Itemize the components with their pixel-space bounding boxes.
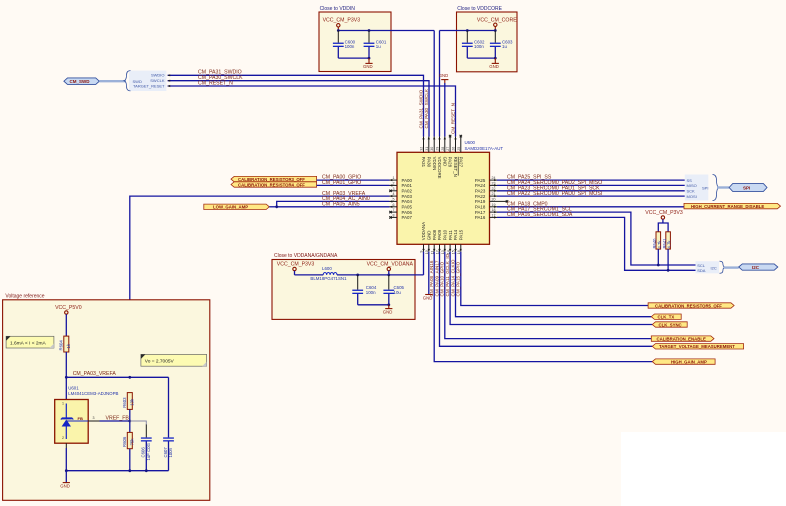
harness link SWD	[99, 80, 126, 82]
svg-text:PA02: PA02	[402, 189, 413, 194]
svg-text:VCC_CM_VDDANA: VCC_CM_VDDANA	[367, 262, 414, 268]
svg-text:PA11: PA11	[448, 230, 453, 241]
svg-text:CM_PA30_SWCLK: CM_PA30_SWCLK	[424, 88, 429, 128]
svg-text:CLK_TX: CLK_TX	[658, 315, 675, 320]
wire PA00	[317, 179, 390, 181]
svg-text:GND: GND	[442, 157, 447, 167]
harness link SPI	[717, 186, 729, 188]
svg-text:I2C: I2C	[711, 266, 717, 271]
svg-text:100n: 100n	[474, 44, 484, 49]
pin PA01 pin 2	[390, 181, 413, 188]
sheet entry flag CM_SWD	[64, 78, 99, 85]
svg-text:Close to VDDANA/GNDANA: Close to VDDANA/GNDANA	[274, 253, 338, 259]
capacitor C602 100n	[462, 31, 485, 59]
svg-text:22: 22	[492, 187, 496, 191]
svg-text:GND: GND	[363, 64, 373, 69]
svg-text:CM_PA05_AIN5: CM_PA05_AIN5	[322, 202, 360, 208]
wire PA03 column through R603 to FB node	[129, 409, 131, 432]
wire VDDANA rail left	[295, 274, 324, 276]
svg-text:PA07: PA07	[402, 215, 413, 220]
wire voltage reference ground rail	[66, 470, 168, 472]
svg-text:CM_RESET_N: CM_RESET_N	[198, 80, 233, 86]
ground GND (VDDCORE box)	[489, 58, 499, 69]
wire PA09 to TARGET_VOLTAGE_MEASUREMENT	[440, 252, 653, 347]
junction R641/SDA	[667, 269, 670, 272]
junction bottom rail at C603	[494, 57, 497, 60]
capacitor C604 100n	[352, 275, 377, 305]
pin VDDANA pin 9 (bottom)	[420, 222, 427, 253]
pin PA14 pin 15 (bottom)	[452, 229, 459, 254]
svg-text:PA19: PA19	[475, 199, 486, 204]
svg-text:8: 8	[393, 213, 395, 217]
svg-text:75k: 75k	[129, 438, 134, 446]
svg-text:CM_PA09_AIN17: CM_PA09_AIN17	[434, 260, 439, 296]
svg-text:SPI: SPI	[743, 185, 750, 190]
svg-text:BLM18PG471SN1: BLM18PG471SN1	[310, 276, 347, 281]
svg-text:PA04: PA04	[402, 199, 413, 204]
svg-text:1: 1	[62, 402, 64, 406]
svg-text:SCL: SCL	[697, 263, 706, 268]
zener diode symbol inside U601	[61, 402, 88, 440]
svg-text:18: 18	[492, 208, 496, 212]
sheet entry flag SPI	[729, 184, 767, 192]
wire VREF_FB	[100, 420, 130, 422]
svg-text:CM_PA14_CLKIO: CM_PA14_CLKIO	[450, 259, 455, 296]
svg-text:17: 17	[492, 213, 496, 217]
capacitor C601 1u	[364, 31, 387, 59]
power VCC_CM_P3V3 (VDDANA box)	[277, 262, 315, 275]
junction R640/SCL	[657, 264, 660, 267]
wire GND pin drop	[444, 83, 446, 137]
svg-text:HIGH_CURRENT_RANGE_DISABLE: HIGH_CURRENT_RANGE_DISABLE	[691, 204, 764, 209]
junction VREFA at R604 column	[65, 376, 68, 379]
capacitor C603 1u	[490, 31, 513, 59]
svg-text:VDDIN: VDDIN	[432, 157, 437, 171]
resistor R641 4.7k	[662, 232, 672, 249]
svg-text:VCC_CM_P3V3: VCC_CM_P3V3	[645, 210, 683, 216]
svg-text:GND: GND	[439, 73, 449, 78]
svg-text:3: 3	[393, 187, 395, 191]
svg-text:VDDANA: VDDANA	[421, 222, 426, 240]
junction VDDIN rail at C601	[368, 29, 371, 32]
wire VREFA horizontal	[66, 376, 168, 378]
junction at PA04/PA05 split	[275, 205, 278, 208]
svg-text:PA31: PA31	[421, 157, 426, 168]
junction VDDCORE rail at C603	[494, 29, 497, 32]
svg-text:4: 4	[393, 192, 395, 196]
pin PA22 pin 21	[475, 192, 497, 199]
wire VDDIN rail	[338, 30, 434, 32]
wire PA03 VREFA horizontal	[130, 196, 390, 377]
wire VDDANA pin drop	[423, 252, 425, 275]
wire VDDCORE box bottom rail	[467, 57, 495, 59]
svg-text:MOSI: MOSI	[687, 194, 697, 199]
power VCC_CM_P3V3 (VDDIN box)	[323, 17, 361, 30]
port CLK_SYNC	[652, 322, 687, 328]
wire VDDIN box bottom rail	[338, 57, 369, 59]
port CALIBRATION_RESISTOR3_OFF	[231, 176, 317, 182]
capacitor C607 100n	[163, 437, 174, 470]
svg-text:SDA: SDA	[697, 268, 706, 273]
note Vo = 2.7005V	[141, 354, 207, 366]
wire PA22 SPI MOSI	[497, 195, 685, 197]
wire PA11 to CLK_SYNC	[450, 252, 652, 325]
svg-text:PA24: PA24	[475, 183, 486, 188]
svg-text:CM_PA31_SWDIO: CM_PA31_SWDIO	[419, 89, 424, 128]
wire SWDIO	[168, 74, 424, 136]
note 1.6mA < I < 2mA	[6, 336, 54, 348]
wire PA25 SPI SS	[497, 179, 685, 181]
svg-text:CM_PA16_SERCOM1_SDA: CM_PA16_SERCOM1_SDA	[507, 212, 573, 218]
resistor R640 4.7k	[652, 232, 662, 249]
svg-text:28: 28	[441, 147, 445, 151]
harness link I2C	[724, 266, 739, 268]
wire VDDANA rail right	[337, 274, 424, 276]
svg-text:PA28: PA28	[448, 157, 453, 168]
svg-text:PA00: PA00	[402, 178, 413, 183]
port CALIBRATION_ENABLE	[651, 336, 714, 342]
port TARGET_VOLTAGE_MEASUREMENT	[652, 344, 743, 350]
resistor R603 13k	[122, 393, 134, 410]
harness connector SPI	[685, 175, 719, 201]
pin PA11 pin 14 (bottom)	[446, 230, 453, 255]
inductor L600 BLM18PG471SN1 ferrite bead	[310, 266, 347, 281]
junction gnd rail at C606	[145, 469, 148, 472]
svg-text:PA27: PA27	[458, 157, 463, 168]
svg-text:PA23: PA23	[475, 189, 486, 194]
svg-text:CLK_SYNC: CLK_SYNC	[659, 322, 682, 327]
svg-text:GND: GND	[427, 231, 432, 241]
pin PA19 pin 20 (nc)	[475, 197, 508, 204]
pin PA04 pin 5	[390, 197, 413, 204]
svg-text:CALIBRATION_RESISTOR4_OFF: CALIBRATION_RESISTOR4_OFF	[238, 182, 305, 187]
svg-text:PA08: PA08	[432, 229, 437, 240]
svg-text:32: 32	[420, 147, 424, 151]
region box Close to VDDANA/GNDANA	[272, 253, 415, 319]
svg-text:PA03: PA03	[402, 194, 413, 199]
resistor R604 1k	[59, 336, 71, 352]
svg-text:FB: FB	[78, 416, 83, 421]
junction FB node	[128, 420, 131, 423]
svg-text:PA05: PA05	[402, 205, 413, 210]
svg-text:31: 31	[425, 147, 429, 151]
wire U601 to ground rail	[65, 448, 67, 471]
wire TARGET_RESET / CM_RESET_N	[168, 85, 456, 137]
ground GND (top, at MCU GND pin 28)	[439, 73, 449, 83]
port HIGH_GAIN_AMP	[652, 359, 715, 365]
port CALIBRATION_RESISTOR5_OFF	[648, 303, 734, 309]
pin GND pin 10 (bottom)	[425, 231, 432, 255]
junction gnd rail at U601	[65, 469, 68, 472]
capacitor C600 100n	[333, 31, 356, 59]
svg-text:21: 21	[492, 192, 496, 196]
pin PA03 pin 4	[390, 192, 413, 199]
svg-text:VCC_CM_P3V3: VCC_CM_P3V3	[277, 262, 315, 268]
svg-text:5: 5	[393, 197, 395, 201]
svg-text:Close to VDDIN: Close to VDDIN	[320, 6, 356, 12]
svg-text:3: 3	[93, 416, 95, 420]
wire U601 cathode lead	[65, 443, 67, 448]
harness connector I2C	[696, 261, 726, 273]
power VCC_CM_CORE	[477, 17, 517, 30]
svg-text:HIGH_GAIN_AMP: HIGH_GAIN_AMP	[671, 360, 707, 365]
wire C607 top lead from VREFA	[168, 377, 170, 437]
pin PA07 pin 8 (nc)	[389, 213, 412, 220]
junction VREFA at PA03 column	[128, 376, 131, 379]
svg-text:24: 24	[492, 176, 496, 180]
ground GND (voltage reference)	[60, 471, 70, 489]
svg-text:1u: 1u	[376, 44, 381, 49]
pin VDDIN pin 30 (top)	[430, 137, 437, 171]
pin PA28 pin 27 (top, nc)	[446, 135, 453, 168]
svg-text:100n: 100n	[366, 290, 376, 295]
svg-text:GND: GND	[489, 64, 499, 69]
wire R640 to SCL	[657, 249, 659, 265]
svg-text:GND: GND	[383, 309, 393, 314]
pin PA17 pin 18	[475, 208, 497, 215]
power VCC_CM_VDDANA	[367, 262, 414, 275]
svg-text:R606: R606	[122, 436, 127, 447]
pin PA24 pin 23	[475, 181, 497, 188]
svg-text:Vo = 2.7005V: Vo = 2.7005V	[145, 358, 175, 364]
svg-text:CM_SWD: CM_SWD	[70, 79, 91, 84]
wire R604 to VREFA node	[65, 352, 67, 400]
svg-text:2: 2	[393, 181, 395, 185]
wire VDDANA box bottom rail	[358, 304, 389, 306]
region box Close to VDDCORE	[457, 6, 518, 72]
junction rail at C604	[356, 274, 359, 277]
svg-text:Voltage reference: Voltage reference	[5, 294, 44, 300]
svg-text:SPI: SPI	[702, 185, 708, 190]
wire LOW_GAIN_AMP to junction	[269, 206, 276, 208]
wire PA01	[317, 184, 390, 186]
wire PA23 SPI SCK	[497, 190, 685, 192]
svg-text:29: 29	[436, 147, 440, 151]
pin PA31 pin 32 (top)	[420, 137, 427, 168]
svg-text:CALIBRATION_RESISTOR3_OFF: CALIBRATION_RESISTOR3_OFF	[238, 177, 305, 182]
svg-text:R604: R604	[59, 340, 64, 351]
region box Close to VDDIN	[319, 6, 391, 72]
wire SWCLK	[168, 80, 429, 137]
harness connector SWD	[124, 71, 166, 91]
svg-text:GND: GND	[60, 484, 70, 489]
capacitor C606 1uF C0G	[141, 425, 152, 471]
wire PA14 to CLK_TX	[456, 252, 652, 317]
wire PA17 SCL	[497, 212, 696, 265]
svg-text:PA25: PA25	[475, 178, 486, 183]
pin PA30 pin 31 (top)	[425, 137, 432, 168]
pin PA09 pin 12 (bottom)	[436, 229, 443, 254]
port LOW_GAIN_AMP	[204, 204, 269, 210]
wire VDDCORE drop to pin 29	[439, 31, 441, 137]
svg-text:1u: 1u	[502, 44, 507, 49]
svg-text:PA09: PA09	[437, 229, 442, 240]
svg-text:LOW_GAIN_AMP: LOW_GAIN_AMP	[213, 205, 248, 210]
svg-text:TARGET_VOLTAGE_MEASUREMENT: TARGET_VOLTAGE_MEASUREMENT	[659, 344, 735, 349]
svg-text:6: 6	[393, 203, 395, 207]
wire PA16 SDA	[497, 217, 696, 270]
sheet entry flag I2C	[739, 264, 778, 270]
svg-text:30: 30	[430, 147, 434, 151]
white corner panel	[621, 432, 786, 506]
pin VDDCORE pin 29 (top)	[436, 137, 443, 179]
svg-text:1.6mA < I < 2mA: 1.6mA < I < 2mA	[10, 340, 47, 346]
pin GND pin 28 (top)	[441, 137, 448, 167]
svg-text:U601: U601	[68, 385, 79, 390]
pin PA06 pin 7 (nc)	[389, 208, 412, 215]
svg-text:RESET_N: RESET_N	[453, 157, 458, 177]
pin PA00 pin 1	[390, 176, 413, 183]
wire PA05	[277, 206, 390, 208]
resistor R606 75k	[122, 432, 134, 448]
pin PA08 pin 11 (bottom)	[430, 229, 437, 254]
pin 3 FB stub	[88, 416, 99, 421]
svg-text:VCC_CM_CORE: VCC_CM_CORE	[477, 17, 517, 23]
pin RESET_N pin 26 (top)	[452, 137, 459, 177]
pin PA16 pin 17	[475, 213, 497, 220]
svg-text:VDDCORE: VDDCORE	[437, 157, 442, 179]
pin PA10 pin 13 (bottom)	[441, 229, 448, 254]
svg-text:SS: SS	[687, 178, 693, 183]
wire PA18 CMP0	[497, 206, 684, 208]
svg-text:CM_PA01_GPIO: CM_PA01_GPIO	[322, 180, 361, 186]
svg-text:CM_PA03_VREFA: CM_PA03_VREFA	[73, 371, 117, 377]
svg-text:1uF C0G: 1uF C0G	[146, 442, 151, 460]
svg-text:20: 20	[492, 197, 496, 201]
junction rail at C605	[387, 274, 390, 277]
pin PA05 pin 6	[390, 203, 413, 210]
power VCC_CM_P3V3 (I2C pull-ups)	[645, 210, 683, 223]
svg-text:13k: 13k	[129, 398, 134, 406]
svg-text:TARGET_RESET: TARGET_RESET	[133, 83, 165, 88]
power VCC_P5V0	[55, 305, 82, 336]
wire PA24 SPI MISO	[497, 184, 685, 186]
svg-text:SAMD20E17A-AUT: SAMD20E17A-AUT	[465, 146, 504, 151]
pin PA15 pin 16 (bottom)	[457, 229, 464, 254]
pin PA18 pin 19	[475, 203, 497, 210]
junction VDDCORE rail at C602	[466, 29, 469, 32]
svg-text:L600: L600	[322, 266, 332, 271]
wire R641 to SDA	[667, 249, 669, 270]
svg-text:4.7k: 4.7k	[667, 240, 672, 249]
svg-text:CM_RESET_N: CM_RESET_N	[451, 103, 456, 134]
svg-text:PA06: PA06	[402, 210, 413, 215]
junction bottom rail at C601	[368, 57, 371, 60]
port CALIBRATION_RESISTOR4_OFF	[231, 182, 317, 188]
svg-text:PA30: PA30	[426, 157, 431, 168]
wire VDDIN drop to pin 30	[433, 31, 435, 137]
pin PA02 pin 3 (nc)	[389, 187, 412, 194]
svg-text:PA14: PA14	[453, 229, 458, 240]
junction gnd rail at R606	[128, 469, 131, 472]
svg-text:10u: 10u	[394, 290, 402, 295]
port CLK_TX	[651, 314, 681, 320]
svg-text:23: 23	[492, 181, 496, 185]
pin PA27 pin 25 (top, nc)	[457, 135, 464, 168]
svg-text:PA10: PA10	[443, 229, 448, 240]
svg-text:SCK: SCK	[687, 189, 696, 194]
svg-text:CM_PA11_GCLK_IO: CM_PA11_GCLK_IO	[445, 253, 450, 296]
svg-text:2: 2	[62, 436, 64, 440]
svg-text:Close to VDDCORE: Close to VDDCORE	[457, 6, 502, 12]
wire PA08 to HIGH_GAIN_AMP	[434, 252, 652, 362]
junction VDDIN rail at C600	[337, 29, 340, 32]
region box Voltage reference	[3, 294, 210, 501]
ground GND (VDDIN box)	[363, 58, 373, 69]
svg-text:CM_PA08_AIN16: CM_PA08_AIN16	[429, 260, 434, 296]
op-amp U600 SAMD20E17A-AUT MCU body	[397, 140, 503, 244]
svg-text:100n: 100n	[345, 44, 355, 49]
svg-text:SWDIO: SWDIO	[151, 73, 165, 78]
port HIGH_CURRENT_RANGE_DISABLE	[684, 203, 781, 209]
svg-text:U600: U600	[465, 140, 476, 145]
wire PA15 to CALIBRATION_RESISTOR5_OFF	[461, 252, 648, 306]
ground GND (VDDANA box)	[383, 305, 393, 315]
svg-text:PA17: PA17	[475, 210, 486, 215]
svg-text:VREF_FB: VREF_FB	[106, 415, 130, 421]
wire R606 to ground rail	[129, 449, 131, 471]
svg-text:I2C: I2C	[752, 265, 760, 270]
ground GND (MCU bottom)	[423, 295, 433, 301]
svg-text:19: 19	[492, 203, 496, 207]
pin PA25 pin 24	[475, 176, 497, 183]
svg-text:PA01: PA01	[402, 183, 413, 188]
svg-text:7: 7	[393, 208, 395, 212]
svg-text:26: 26	[452, 147, 456, 151]
svg-text:MISO: MISO	[687, 183, 697, 188]
wire PA04	[277, 201, 390, 206]
wire VDDCORE rail	[440, 30, 496, 32]
svg-text:25: 25	[457, 147, 461, 151]
svg-text:VCC_CM_P3V3: VCC_CM_P3V3	[323, 17, 361, 23]
wire FB node to C606 (grey)	[130, 421, 147, 425]
svg-text:VCC_P5V0: VCC_P5V0	[55, 305, 82, 311]
svg-text:CM_PA15_GPIO: CM_PA15_GPIO	[456, 261, 461, 296]
transistor U601 LM4041CEM3-ADJNOPB shunt reference body	[55, 385, 119, 443]
svg-text:100n: 100n	[168, 447, 173, 457]
svg-text:LM4041CEM3-ADJNOPB: LM4041CEM3-ADJNOPB	[68, 391, 118, 396]
svg-text:27: 27	[446, 147, 450, 151]
svg-text:CALIBRATION_RESISTOR5_OFF: CALIBRATION_RESISTOR5_OFF	[655, 303, 722, 308]
wire PA10 to CALIBRATION_ENABLE	[445, 252, 652, 339]
svg-text:CALIBRATION_ENABLE: CALIBRATION_ENABLE	[657, 337, 706, 342]
pin PA23 pin 22	[475, 187, 497, 194]
wire pull-up tee	[658, 223, 668, 232]
svg-text:1: 1	[393, 176, 395, 180]
wire MCU bottom GND drop	[428, 252, 430, 295]
svg-text:R603: R603	[122, 397, 127, 408]
capacitor C605 10u	[383, 275, 404, 305]
svg-text:CM_PA10_GPIO: CM_PA10_GPIO	[440, 261, 445, 296]
svg-text:PA22: PA22	[475, 194, 486, 199]
svg-text:SWCLK: SWCLK	[150, 78, 165, 83]
svg-text:CM_PA22_SERCOM0_PAD0_SPI_MOSI: CM_PA22_SERCOM0_PAD0_SPI_MOSI	[507, 191, 602, 197]
svg-text:PA18: PA18	[475, 205, 486, 210]
svg-text:PA16: PA16	[475, 215, 486, 220]
junction bottom rail at C605	[387, 303, 390, 306]
svg-text:PA15: PA15	[459, 229, 464, 240]
